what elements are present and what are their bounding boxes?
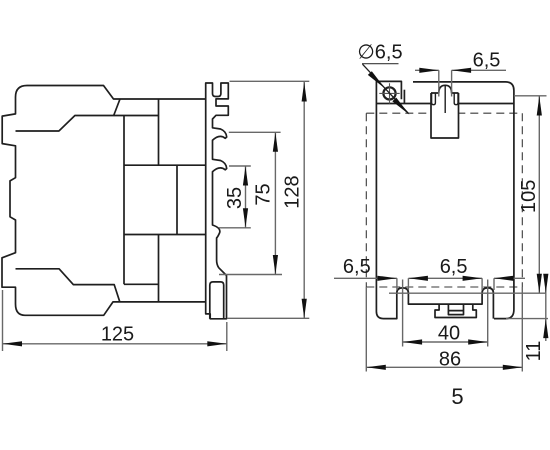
leader line for hole dia [363, 64, 409, 113]
inner vertical v1 [123, 116, 125, 285]
dim 105 extensions [389, 96, 547, 293]
arrow hole leader (at circle) [368, 71, 385, 88]
dim 105 line [538, 96, 540, 293]
svg-text:125: 125 [101, 324, 134, 346]
inner step line E [16, 116, 159, 132]
arrow 40 right [468, 339, 488, 344]
dim 6,5 bottom extensions (hump edges) [397, 278, 494, 290]
dim 35 extension lines [219, 166, 251, 228]
svg-text:35: 35 [224, 187, 246, 209]
svg-text:86: 86 [439, 349, 461, 371]
dim 6,5 bottom line [334, 277, 525, 279]
dim 86 line [366, 366, 522, 368]
svg-text:11: 11 [523, 341, 545, 362]
arrow 6,5 top left [419, 68, 439, 73]
top bevel inner slant [114, 99, 121, 116]
arrow 75 bottom [273, 255, 278, 275]
mounting plate (side view right) [206, 83, 229, 319]
leader underline for hole dia [362, 63, 399, 65]
inner horizontal h3 [124, 164, 206, 166]
tab top edge with hump [431, 85, 459, 93]
inner vertical v3 [176, 165, 178, 234]
dim 125 line [3, 343, 227, 345]
arrow 6,5 bl left [377, 276, 397, 281]
arrow 86 right [503, 365, 523, 370]
arrow 11 bottom (outside) [543, 319, 548, 339]
inner horizontal h4 [124, 234, 206, 236]
arrow 125 left [3, 341, 23, 346]
tab center line [444, 85, 446, 114]
lower bevel step [16, 269, 120, 302]
bottom rail outline [376, 288, 493, 319]
dim 75 extension lines [219, 132, 282, 274]
inner horizontal h5 [124, 283, 159, 285]
svg-text:∅6,5: ∅6,5 [357, 42, 402, 64]
arrow 35 top [243, 166, 248, 186]
dim 128 extension lines [227, 81, 309, 318]
plate bar outline with hooks [206, 83, 229, 319]
arrow 128 top [302, 82, 307, 102]
inner vertical v2b [158, 235, 160, 302]
small notch right of hole plate [403, 90, 405, 104]
svg-text:105: 105 [518, 180, 540, 213]
svg-text:6,5: 6,5 [343, 256, 371, 278]
svg-text:75: 75 [253, 183, 275, 205]
arrow 128 bottom [302, 299, 307, 319]
side view outer outline [2, 86, 206, 316]
svg-text:40: 40 [438, 323, 460, 345]
arrow 40 left [403, 339, 423, 344]
arrow 75 top [273, 132, 278, 152]
arrow 125 right [207, 341, 227, 346]
svg-text:5: 5 [451, 384, 463, 409]
hole centerlines / dim 40 extensions [403, 280, 488, 347]
tab right U slot [454, 93, 458, 105]
arrow 105 top [537, 96, 542, 116]
arrow 6,5 bc left [463, 276, 483, 281]
tab left U slot [432, 93, 436, 105]
DIN clip (front view) [435, 304, 476, 317]
arrow 6,5 bl right [408, 276, 428, 281]
arrow 6,5 top right [452, 68, 472, 73]
front face top line [376, 103, 514, 105]
svg-text:6,5: 6,5 [440, 256, 468, 278]
dim 11 line and bottom extension [506, 282, 548, 341]
dim 6,5 top line [415, 69, 506, 71]
arrow hole leader (lower end) [392, 98, 409, 115]
arrow 6,5 bc right [494, 276, 514, 281]
hidden body dashed rectangle [366, 113, 522, 287]
clip release tab [448, 304, 463, 315]
arrow 86 left [366, 365, 386, 370]
DIN clip (side view) [210, 282, 224, 319]
dim 35 line [245, 166, 247, 228]
top middle tab [431, 85, 459, 139]
dim 125 extension lines [3, 290, 227, 351]
dim 6,5 top extensions [439, 70, 452, 96]
svg-text:128: 128 [282, 175, 304, 208]
dim 40 line [403, 341, 488, 343]
dim 75 line [274, 132, 276, 274]
arrow 35 bottom [243, 208, 248, 228]
arrow 11 top (outside) [543, 274, 548, 294]
dim 128 line [303, 82, 305, 318]
dim 86 extensions [366, 287, 522, 372]
mounting hole circle [383, 87, 395, 99]
svg-text:6,5: 6,5 [473, 50, 501, 72]
arrow 105 bottom [537, 274, 542, 294]
inner vertical v2 [158, 99, 160, 165]
tab body [431, 93, 459, 138]
front view outline [376, 81, 514, 318]
